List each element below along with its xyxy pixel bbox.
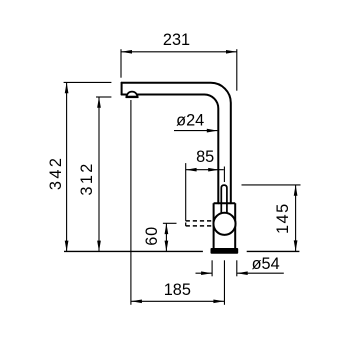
dim 60 <box>165 223 167 251</box>
svg-text:342: 342 <box>47 156 65 190</box>
svg-text:312: 312 <box>78 161 96 195</box>
spout left cap <box>121 83 123 95</box>
dimension/extension lines <box>64 49 301 305</box>
lever dashed <box>186 221 214 226</box>
spout outer <box>122 83 231 203</box>
ext dia54 right <box>236 260 238 276</box>
arrowheads <box>65 50 298 303</box>
svg-text:ø24: ø24 <box>176 111 204 129</box>
dim 312 <box>98 97 100 251</box>
svg-text:85: 85 <box>196 148 214 166</box>
dim 231 <box>121 51 237 53</box>
counter line left <box>64 250 203 252</box>
body <box>214 203 236 249</box>
base plate <box>211 248 239 254</box>
ball <box>213 213 235 235</box>
ext 85 left / lever tip <box>185 163 187 221</box>
inner stem <box>221 185 227 213</box>
svg-text:185: 185 <box>164 281 191 299</box>
dim 145 <box>295 185 297 251</box>
dim dia24 leader <box>174 130 217 132</box>
dim 85 <box>186 169 224 171</box>
ext 145 top <box>242 184 301 186</box>
dim 342 <box>66 82 68 251</box>
svg-text:145: 145 <box>274 202 292 234</box>
svg-text:ø54: ø54 <box>252 255 280 273</box>
counter line right <box>247 250 300 252</box>
aerator dome <box>126 92 139 97</box>
ext dia54 left <box>211 260 213 276</box>
ext 231 right <box>236 49 238 90</box>
outlet centreline / ext 185 left <box>130 100 132 305</box>
svg-text:60: 60 <box>143 226 161 246</box>
spout inner <box>122 95 219 204</box>
centre ext below plate <box>223 260 225 305</box>
ext 231 left <box>120 49 122 77</box>
ext 342 top <box>64 81 112 83</box>
ext 60 tick <box>163 222 177 224</box>
dim 185 <box>131 300 224 302</box>
dim dia54 <box>196 272 212 274</box>
ext 312 top <box>96 96 111 98</box>
faucet <box>122 83 231 203</box>
svg-text:231: 231 <box>163 31 190 49</box>
centre tick 85 <box>223 167 225 183</box>
